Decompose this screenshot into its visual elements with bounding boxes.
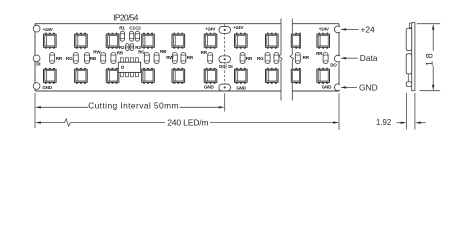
side view top component bbox=[409, 23, 411, 28]
LED D12 (bottom row) bbox=[106, 68, 119, 84]
LED D3 (top row) bbox=[106, 33, 119, 49]
svg-text:RW: RW bbox=[93, 50, 101, 55]
LED D7 (top row) bbox=[235, 33, 248, 49]
svg-text:RG: RG bbox=[138, 50, 145, 55]
LED D1 (top row) bbox=[44, 33, 57, 49]
resistor C1 body bbox=[129, 31, 133, 41]
side view PCB bar bbox=[412, 23, 415, 91]
LED D18 (bottom row) bbox=[317, 68, 330, 84]
dimension 18 (height) bbox=[417, 24, 440, 91]
LED D14 (bottom row) bbox=[172, 68, 185, 84]
LED D5 (top row) bbox=[172, 33, 185, 49]
svg-text:1.92: 1.92 bbox=[376, 118, 391, 127]
LED D_partial (top row, at break) bbox=[291, 33, 301, 49]
svg-text:DO│DI: DO│DI bbox=[219, 63, 232, 70]
resistor RR6 bbox=[295, 53, 300, 64]
svg-text:DO: DO bbox=[330, 63, 337, 68]
svg-text:RR: RR bbox=[187, 55, 194, 60]
svg-text:GND: GND bbox=[204, 85, 214, 90]
svg-text:+24V: +24V bbox=[43, 27, 54, 32]
resistor R3 body bbox=[130, 44, 134, 51]
pad DI left bbox=[33, 55, 40, 62]
svg-text:Cutting Interval 50mm: Cutting Interval 50mm bbox=[88, 101, 179, 111]
svg-text:R1: R1 bbox=[119, 25, 125, 30]
solder pad data at cut bbox=[219, 56, 231, 63]
extension line at cut (x=224.7) bbox=[224, 93, 226, 111]
svg-text:DI: DI bbox=[36, 62, 40, 67]
LED D_partial (bottom row, at break) bbox=[291, 68, 301, 84]
extension line left (x=35) bbox=[34, 93, 36, 128]
callout wire to GND bbox=[340, 82, 377, 92]
side view LED bump 2 bbox=[406, 54, 412, 74]
resistor RB2 bbox=[154, 53, 159, 64]
break line right bbox=[290, 19, 293, 101]
resistor RW2 bbox=[172, 53, 177, 64]
pad GND left bbox=[33, 83, 40, 90]
LED D8 (top row) bbox=[266, 33, 279, 49]
LED D16 (bottom row) bbox=[235, 68, 248, 84]
svg-text:RG: RG bbox=[257, 56, 264, 61]
resistor RR1 bbox=[50, 53, 55, 64]
svg-text:RR: RR bbox=[201, 50, 208, 55]
resistor R1 body bbox=[120, 31, 124, 41]
resistor R2 body bbox=[126, 44, 130, 51]
extension line right (x=339) bbox=[338, 93, 340, 130]
pad +24V left bbox=[33, 25, 40, 32]
svg-text:GND: GND bbox=[42, 85, 52, 90]
LED D13 (bottom row) bbox=[142, 68, 155, 84]
dimension 1.92 (thickness) bbox=[376, 93, 426, 130]
svg-text:GND: GND bbox=[359, 82, 378, 92]
svg-text:+24: +24 bbox=[361, 24, 376, 34]
callout wire to Data bbox=[340, 53, 378, 63]
svg-text:IP20/54: IP20/54 bbox=[113, 13, 139, 23]
LED D9 (top row) bbox=[317, 33, 330, 49]
LED D17 (bottom row) bbox=[266, 68, 279, 84]
dimension Cutting Interval 50mm bbox=[35, 101, 225, 111]
side view LED bump 3 bbox=[406, 82, 412, 87]
resistor RB1 bbox=[85, 53, 90, 64]
side view LED bump 1 bbox=[406, 28, 412, 50]
svg-text:18: 18 bbox=[425, 50, 435, 66]
svg-text:RW: RW bbox=[166, 55, 174, 60]
resistor RR3 bbox=[181, 53, 186, 64]
svg-text:RR: RR bbox=[56, 56, 63, 61]
svg-text:+24V: +24V bbox=[233, 25, 244, 30]
svg-text:GND: GND bbox=[322, 85, 332, 90]
svg-text:RR: RR bbox=[316, 51, 323, 56]
solder pad +24V at cut bbox=[219, 26, 231, 33]
resistor RG3 bbox=[265, 53, 270, 64]
svg-text:R3: R3 bbox=[135, 45, 141, 50]
callout wire to +24 bbox=[340, 24, 375, 34]
svg-text:C2: C2 bbox=[135, 25, 141, 30]
LED D2 (top row) bbox=[75, 33, 88, 49]
svg-text:R2: R2 bbox=[119, 45, 125, 50]
svg-text:RR: RR bbox=[246, 56, 253, 61]
break line left bbox=[279, 19, 282, 101]
resistor RB3 bbox=[274, 53, 279, 64]
PCB bottom edge bbox=[35, 90, 339, 92]
LED D4 (top row) bbox=[142, 33, 155, 49]
cut line (dashed) bbox=[224, 24, 226, 90]
LED D10 (bottom row) bbox=[44, 68, 57, 84]
resistor RR4 bbox=[208, 53, 213, 64]
svg-text:GND: GND bbox=[236, 86, 246, 91]
svg-text:RB: RB bbox=[90, 56, 97, 61]
resistor RR5 bbox=[240, 53, 245, 64]
PCB top edge bbox=[35, 23, 339, 25]
LED D15 (bottom row) bbox=[204, 68, 217, 84]
IC U1 bbox=[118, 58, 140, 77]
dimension 240 LED/m bbox=[35, 118, 339, 128]
svg-text:RG: RG bbox=[66, 56, 73, 61]
resistor RR7 bbox=[323, 53, 328, 64]
LED D11 (bottom row) bbox=[75, 68, 88, 84]
svg-text:+24V: +24V bbox=[319, 27, 330, 32]
side view narrow component bbox=[408, 74, 411, 82]
svg-text:RR: RR bbox=[117, 50, 124, 55]
svg-text:+24V: +24V bbox=[205, 27, 216, 32]
svg-text:240 LED/m: 240 LED/m bbox=[167, 118, 208, 128]
pad +24 right bbox=[334, 26, 340, 33]
resistor RR2 bbox=[111, 53, 116, 64]
resistor RG2 bbox=[144, 53, 149, 64]
svg-text:RB: RB bbox=[160, 49, 167, 54]
solder pad GND at cut bbox=[219, 84, 231, 91]
svg-text:Data: Data bbox=[360, 53, 378, 63]
resistor RW1 bbox=[101, 53, 106, 64]
resistor RG1 bbox=[73, 53, 78, 64]
resistor C2 body bbox=[135, 31, 139, 41]
PCB left edge bbox=[34, 24, 36, 91]
PCB right edge bbox=[338, 24, 340, 91]
svg-text:RR: RR bbox=[303, 55, 310, 60]
pad DO right bbox=[334, 55, 340, 62]
LED D6 (top row) bbox=[204, 33, 217, 49]
pad GND right bbox=[334, 84, 340, 91]
